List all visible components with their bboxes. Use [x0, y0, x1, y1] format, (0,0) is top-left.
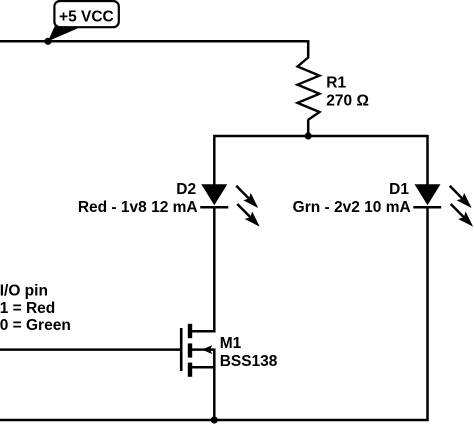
transistor M1 body-source link with arrow — [192, 345, 214, 367]
transistor M1 gate bar — [180, 328, 183, 371]
wire top +5V rail — [0, 40, 308, 43]
LED D2 light arrow 1 — [236, 186, 258, 208]
wire MOSFET source to bottom rail — [213, 366, 216, 420]
wire bottom rail — [0, 419, 428, 422]
wire left branch to D2 anode — [213, 135, 216, 186]
LED D1 light arrow 2 — [451, 204, 473, 227]
LED D1 triangle — [415, 184, 441, 205]
svg-text:Grn - 2v2 10 mA: Grn - 2v2 10 mA — [293, 199, 411, 216]
wire resistor top lead — [307, 40, 310, 58]
wire D2 cathode to MOSFET drain — [213, 207, 216, 332]
wire MOSFET source stub — [190, 366, 215, 369]
wire resistor bottom lead — [307, 119, 310, 136]
svg-text:BSS138: BSS138 — [220, 353, 278, 370]
net flag +5 VCC — [48, 1, 119, 41]
wire right branch to D1 anode — [426, 135, 429, 186]
svg-text:0 = Green: 0 = Green — [0, 317, 71, 334]
transistor M1 channel bottom segment — [188, 363, 192, 377]
svg-text:Red - 1v8 12 mA: Red - 1v8 12 mA — [78, 199, 198, 216]
svg-text:D2: D2 — [176, 181, 196, 198]
LED D1 light arrow 1 — [450, 186, 472, 208]
wire mid rail — [214, 135, 427, 138]
svg-text:D1: D1 — [389, 181, 409, 198]
LED D2 light arrow 2 — [237, 204, 259, 227]
transistor M1 channel middle segment — [188, 343, 192, 357]
svg-text:I/O pin: I/O pin — [0, 282, 48, 299]
svg-text:M1: M1 — [220, 335, 242, 352]
svg-text:270 Ω: 270 Ω — [326, 92, 369, 109]
svg-text:R1: R1 — [326, 75, 346, 92]
LED D1 cathode bar — [413, 206, 441, 209]
resistor R1 — [298, 58, 320, 120]
node VCC junction dot — [44, 38, 51, 45]
wire gate lead from I/O pin — [0, 348, 181, 351]
svg-text:1 = Red: 1 = Red — [0, 300, 55, 317]
node resistor-bottom junction dot — [305, 132, 312, 139]
wire D1 cathode to bottom rail — [426, 207, 429, 421]
svg-text:+5 VCC: +5 VCC — [59, 9, 114, 26]
wire MOSFET drain stub — [190, 330, 215, 333]
node source-bottom junction dot — [211, 416, 218, 423]
LED D2 cathode bar — [200, 206, 228, 209]
LED D2 triangle — [201, 184, 227, 205]
transistor M1 channel top segment — [188, 324, 192, 338]
